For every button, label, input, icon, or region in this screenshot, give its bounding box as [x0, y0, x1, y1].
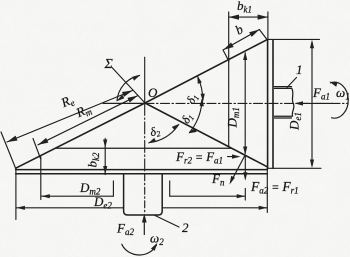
force Fa2 arrow at hub bottom: [143, 217, 145, 235]
gear1 shaft stub wavy break edge: [292, 88, 294, 116]
wire: horizontal pinion axis dash-dot centerline: [145, 102, 348, 104]
Dm2 witness left vertical: [40, 157, 42, 200]
gear1 shaft stub top edge double: [275, 86, 292, 88]
gear1 small-end face / bk1 witness: [228, 12, 230, 146]
bearing line left of hub: [112, 181, 114, 196]
bearing line right of hub: [169, 181, 171, 196]
De2 dimension line right segment: [162, 207, 267, 209]
force Fn arrow: [231, 156, 245, 182]
svg-text:2: 2: [182, 220, 189, 235]
gear1 large-end face line 1: [267, 40, 269, 169]
omega1 rotation arc: [331, 82, 349, 118]
leader for label 1: [287, 78, 297, 88]
De2 dimension line left segment: [17, 207, 124, 209]
force Fa2=Fr1 arrow at P: [244, 156, 246, 179]
b witness tick left: [223, 50, 229, 61]
b dimension line: [223, 30, 259, 50]
b witness tick right: [259, 30, 267, 40]
gear2 right edge witness: [266, 167, 268, 213]
bk1 right witness above pinion corner: [267, 12, 269, 40]
gear2 left edge: [15, 168, 17, 219]
Dm2 right witness below P: [244, 189, 246, 201]
Re dimension line: [7, 91, 133, 143]
svg-text:1: 1: [296, 62, 303, 77]
Sigma angle arc: [117, 76, 140, 101]
Re outer witness tick: [1, 132, 16, 168]
De1 bottom witness: [267, 167, 321, 169]
wire: horizontal pinion axis solid stub left of O: [103, 102, 145, 104]
bk2 dimension line: [104, 139, 106, 175]
Rm outer witness tick: [33, 139, 41, 159]
gear1 large-end face line 2: [272, 40, 274, 169]
gear2 hub outline: [124, 174, 163, 215]
delta1 lower angle arc: [190, 100, 203, 133]
wire: vertical wheel axis upper solid: [144, 57, 146, 103]
gear2 rim bottom line 2: [16, 173, 268, 175]
leader for label 2: [155, 216, 179, 228]
gear1 shaft stub bottom edge double: [275, 115, 292, 117]
Sigma witness line through O: [112, 68, 145, 104]
bk1 dimension line: [229, 16, 268, 18]
force Fr2=Fa1 arrow at P: [228, 156, 239, 158]
delta2 angle arc: [149, 125, 179, 143]
force Fa1 arrow at shaft1: [297, 102, 333, 104]
wire: vertical wheel axis dash-dot through hub: [144, 174, 146, 214]
gear1 top pitch generator: [145, 40, 267, 103]
omega2 rotation arc: [122, 244, 157, 255]
common pitch generator O to bottom-right: [145, 103, 267, 167]
delta1 upper angle arc: [198, 77, 203, 100]
gear2 rim bottom line 1: [16, 169, 268, 171]
gear2 left pitch generator: [16, 103, 145, 168]
Dm2 dimension line right segment: [170, 195, 245, 197]
gear2 rim top inner line: [55, 147, 231, 149]
Dm1 dimension line: [244, 53, 246, 154]
De1 dimension line: [311, 42, 313, 166]
svg-text:Σ: Σ: [104, 57, 114, 72]
svg-text:O: O: [148, 85, 158, 100]
Dm2 dimension line left segment: [41, 195, 113, 197]
De1 top witness: [267, 38, 320, 40]
Rm dimension line: [38, 96, 138, 145]
